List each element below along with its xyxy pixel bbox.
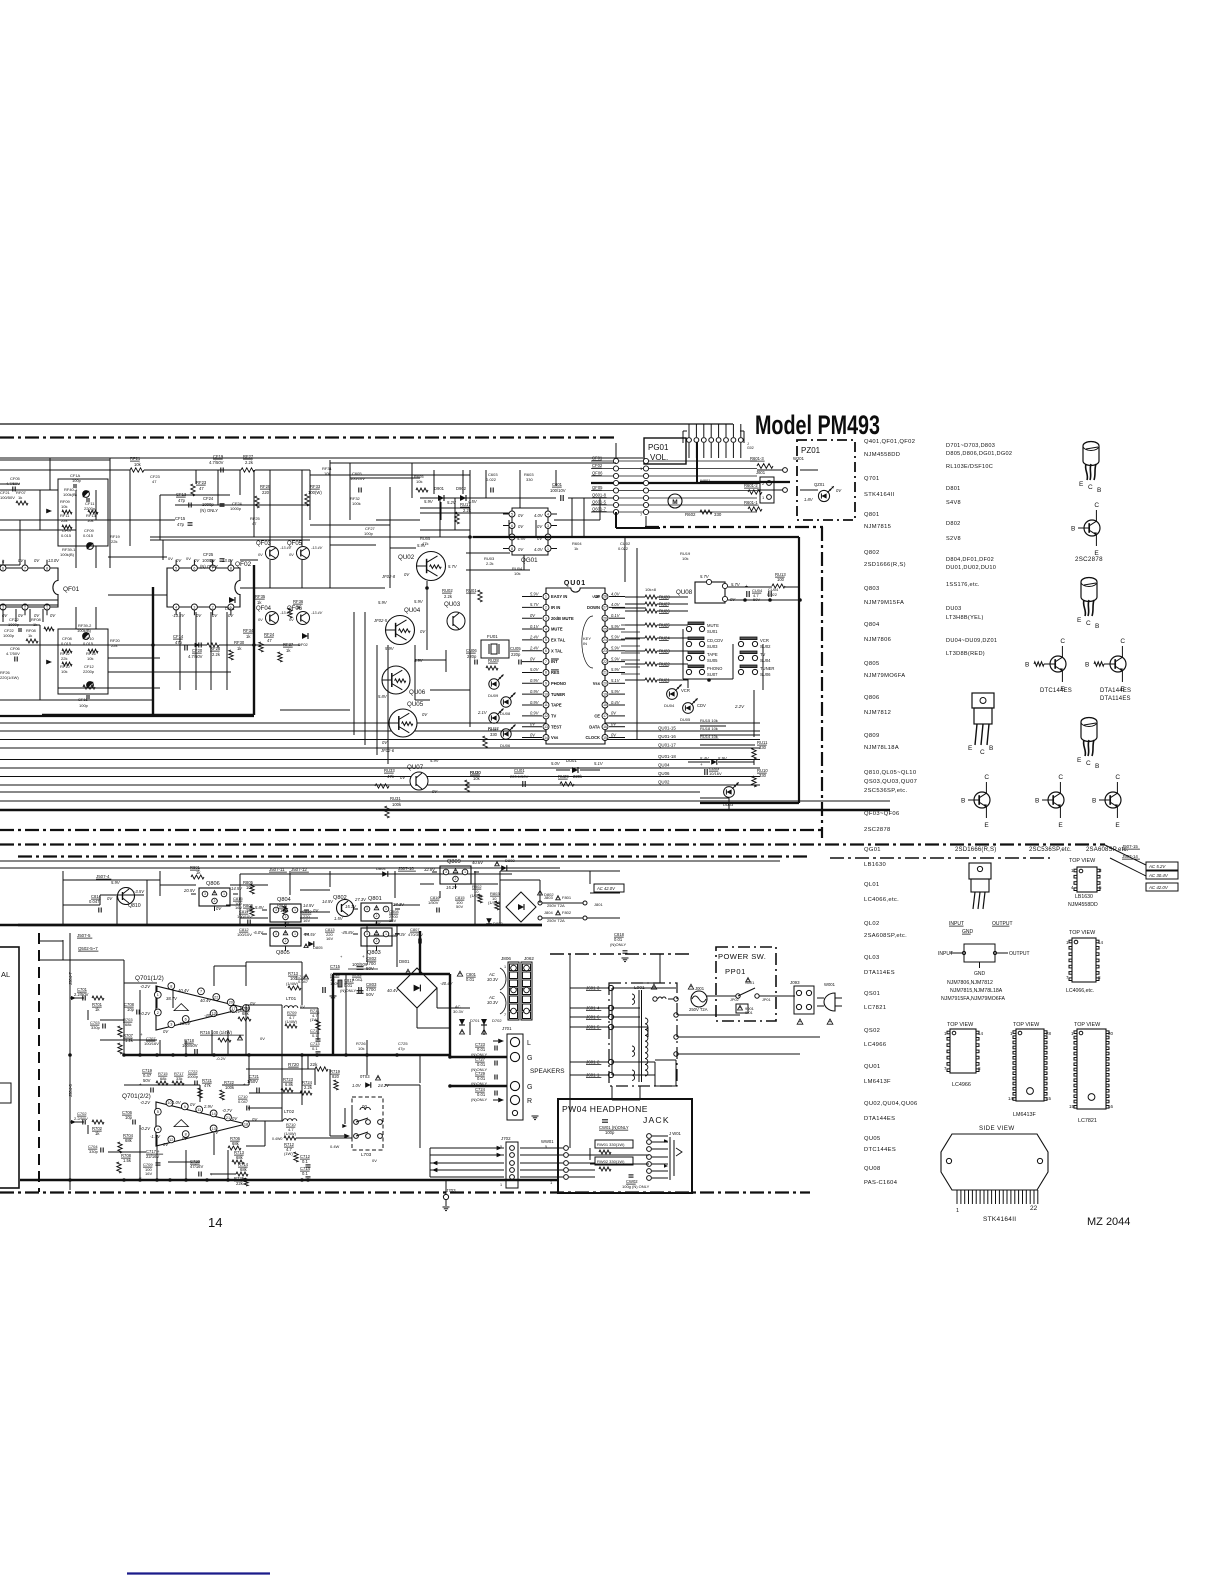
svg-text:100p: 100p [605, 1130, 615, 1135]
svg-text:5.7V: 5.7V [731, 582, 741, 587]
svg-text:QU01: QU01 [864, 1064, 881, 1070]
svg-text:SU07: SU07 [707, 672, 718, 677]
svg-text:Q804: Q804 [864, 622, 880, 628]
svg-text:38.7V: 38.7V [166, 996, 178, 1001]
svg-text:PP01: PP01 [725, 967, 746, 976]
svg-text:D701: D701 [470, 1018, 480, 1023]
svg-text:0V: 0V [186, 556, 191, 561]
svg-text:8: 8 [511, 547, 513, 551]
svg-text:RU28: RU28 [488, 658, 499, 663]
svg-text:RF23: RF23 [196, 480, 207, 485]
svg-text:QU04: QU04 [404, 607, 421, 614]
svg-text:S4V8: S4V8 [946, 500, 961, 506]
svg-text:1000p: 1000p [230, 506, 242, 511]
svg-text:B: B [1092, 798, 1096, 805]
svg-text:100k: 100k [352, 501, 361, 506]
svg-text:220k: 220k [573, 774, 583, 779]
svg-text:B: B [1085, 662, 1089, 669]
svg-text:IN: IN [583, 641, 587, 646]
svg-text:(N)ONLY: (N)ONLY [471, 1097, 487, 1102]
svg-text:SU01: SU01 [707, 629, 718, 634]
svg-text:1: 1 [500, 1183, 502, 1187]
svg-text:5.9V: 5.9V [611, 656, 621, 661]
svg-text:J093: J093 [790, 980, 800, 985]
svg-text:40.4V: 40.4V [200, 998, 212, 1003]
svg-text:RF30: RF30 [234, 640, 245, 645]
svg-text:0.1: 0.1 [302, 1171, 308, 1176]
svg-text:2SC2878: 2SC2878 [1075, 556, 1103, 563]
svg-text:J702: J702 [501, 1136, 511, 1141]
svg-text:E: E [1058, 822, 1063, 829]
svg-text:-6.0V: -6.0V [253, 930, 264, 935]
svg-text:1: 1 [385, 932, 387, 936]
svg-text:RU18 10k: RU18 10k [700, 726, 718, 731]
svg-text:RU01: RU01 [466, 588, 477, 593]
svg-text:5: 5 [157, 1110, 159, 1114]
svg-text:SPEAKERS: SPEAKERS [530, 1068, 564, 1075]
svg-text:TOP VIEW: TOP VIEW [1069, 858, 1096, 864]
svg-text:1.5k: 1.5k [123, 1158, 132, 1163]
svg-text:1: 1 [956, 1208, 959, 1214]
svg-text:2: 2 [376, 914, 378, 918]
svg-text:2: 2 [285, 915, 287, 919]
svg-text:11: 11 [197, 1108, 201, 1112]
svg-text:3: 3 [366, 907, 368, 911]
svg-text:AC 42.0V: AC 42.0V [596, 886, 616, 891]
svg-text:JP02: JP02 [730, 998, 739, 1002]
svg-text:RF34: RF34 [243, 628, 254, 633]
svg-text:SU05: SU05 [707, 658, 718, 663]
svg-text:R: R [527, 1098, 532, 1105]
svg-text:JF02-5: JF02-5 [373, 618, 388, 623]
svg-text:8: 8 [46, 566, 48, 570]
svg-text:1000p: 1000p [187, 1074, 199, 1079]
svg-text:13: 13 [544, 725, 548, 729]
svg-text:QL02: QL02 [864, 921, 880, 927]
svg-text:QU03: QU03 [444, 601, 461, 608]
svg-text:DTC144ES: DTC144ES [1040, 688, 1072, 694]
svg-text:10p: 10p [125, 1115, 133, 1120]
svg-text:Q806: Q806 [206, 881, 220, 887]
svg-text:(N) ONLY: (N) ONLY [200, 508, 218, 513]
svg-text:D804: D804 [376, 866, 386, 871]
svg-text:100: 100 [777, 577, 785, 582]
svg-text:Q701(2/2): Q701(2/2) [122, 1093, 151, 1100]
svg-text:RU29: RU29 [558, 774, 569, 779]
svg-text:RW01 330(1W): RW01 330(1W) [597, 1142, 625, 1147]
svg-text:0.9V: 0.9V [530, 700, 540, 705]
svg-text:Q806: Q806 [864, 695, 880, 701]
svg-text:220.1/50V: 220.1/50V [510, 774, 529, 779]
svg-text:QU01: QU01 [564, 580, 586, 587]
svg-text:12: 12 [544, 714, 548, 718]
svg-text:NJM7806,NJM7812: NJM7806,NJM7812 [947, 980, 993, 986]
svg-text:STK4164II: STK4164II [983, 1216, 1016, 1223]
svg-text:DOWN: DOWN [587, 605, 600, 610]
svg-text:50V: 50V [143, 1078, 151, 1083]
svg-text:LC4066,etc.: LC4066,etc. [864, 897, 899, 903]
svg-text:INT: INT [551, 659, 558, 664]
svg-text:DU01,DU02,DU10: DU01,DU02,DU10 [946, 565, 996, 571]
svg-text:D802: D802 [946, 521, 961, 527]
svg-text:J806: J806 [501, 956, 511, 961]
svg-text:RF33: RF33 [310, 484, 321, 489]
svg-text:-40.4V: -40.4V [440, 981, 454, 986]
svg-text:JP01: JP01 [762, 998, 771, 1002]
svg-text:+: + [360, 978, 363, 983]
svg-text:C: C [1086, 760, 1091, 767]
svg-text:VOL: VOL [592, 594, 601, 599]
svg-text:B: B [961, 798, 965, 805]
svg-text:Q810: Q810 [128, 903, 141, 909]
svg-text:15.1V: 15.1V [345, 904, 357, 909]
svg-text:CF15: CF15 [175, 516, 186, 521]
svg-text:10k: 10k [61, 504, 67, 509]
svg-text:6: 6 [193, 566, 195, 570]
svg-text:0V: 0V [258, 553, 263, 557]
svg-text:3: 3 [193, 605, 195, 609]
svg-text:Q801: Q801 [864, 512, 880, 518]
svg-text:QU01-15: QU01-15 [658, 726, 676, 731]
svg-text:QL01: QL01 [864, 882, 880, 888]
svg-text:20: 20 [229, 1001, 233, 1005]
svg-text:220: 220 [262, 490, 270, 495]
svg-text:5: 5 [175, 566, 177, 570]
svg-text:17: 17 [603, 714, 607, 718]
svg-text:100p: 100p [79, 703, 89, 708]
svg-text:5.9V: 5.9V [385, 646, 395, 651]
svg-text:NJM7915FA,NJM79MO6FA: NJM7915FA,NJM79MO6FA [941, 996, 1006, 1002]
svg-text:DTC144ES: DTC144ES [864, 1147, 896, 1153]
svg-text:0.9V: 0.9V [530, 711, 540, 716]
svg-text:B: B [1095, 623, 1099, 630]
svg-text:Q502-5~7: Q502-5~7 [78, 946, 98, 951]
svg-text:14: 14 [208, 1215, 222, 1230]
svg-text:14: 14 [544, 736, 548, 740]
svg-text:4: 4 [157, 1128, 159, 1132]
svg-text:1: 1 [46, 605, 48, 609]
svg-text:2: 2 [24, 605, 26, 609]
svg-text:Q809: Q809 [864, 733, 880, 739]
svg-text:SU03: SU03 [707, 644, 718, 649]
svg-text:0.022: 0.022 [618, 546, 629, 551]
svg-text:22: 22 [1030, 1205, 1038, 1212]
svg-text:J001: J001 [695, 986, 705, 991]
svg-text:RES: RES [551, 670, 560, 675]
svg-text:6.8k: 6.8k [285, 1082, 294, 1087]
svg-text:330: 330 [490, 732, 498, 737]
svg-text:5.7V: 5.7V [530, 602, 540, 607]
svg-text:CDV: CDV [697, 703, 706, 708]
svg-text:DTA144ES: DTA144ES [1100, 688, 1131, 694]
svg-text:LC7821: LC7821 [1078, 1118, 1097, 1124]
svg-text:Q805: Q805 [864, 661, 880, 667]
svg-text:0.1: 0.1 [312, 1046, 318, 1051]
svg-text:1: 1 [545, 595, 547, 599]
svg-text:2.2/50V: 2.2/50V [74, 992, 89, 997]
svg-text:14: 14 [1008, 1096, 1014, 1101]
svg-text:6: 6 [2, 566, 4, 570]
svg-text:22k: 22k [111, 539, 117, 544]
svg-text:F801: F801 [562, 895, 572, 900]
svg-text:W001: W001 [824, 982, 836, 987]
svg-text:15: 15 [603, 736, 607, 740]
svg-text:-45.8V: -45.8V [341, 930, 355, 935]
svg-text:LT02: LT02 [284, 1109, 295, 1114]
svg-text:47: 47 [152, 479, 157, 484]
svg-text:TAPE: TAPE [551, 703, 562, 708]
svg-text:CU05: CU05 [510, 646, 521, 651]
svg-text:10k×8: 10k×8 [645, 587, 657, 592]
svg-text:-0.2V: -0.2V [140, 984, 151, 989]
svg-text:+: + [700, 762, 703, 767]
svg-text:14: 14 [211, 1112, 215, 1116]
svg-text:J062: J062 [524, 956, 534, 961]
svg-text:CU01: CU01 [514, 768, 525, 773]
svg-text:B: B [1097, 487, 1101, 494]
svg-text:13.0V: 13.0V [48, 558, 60, 563]
svg-text:100(W): 100(W) [308, 490, 322, 495]
svg-text:WW01: WW01 [541, 1139, 554, 1144]
svg-text:SU06: SU06 [760, 672, 771, 677]
svg-text:2: 2 [157, 1011, 159, 1015]
svg-text:W201: W201 [793, 456, 805, 461]
svg-text:10k: 10k [358, 1046, 364, 1051]
svg-text:C: C [1088, 484, 1093, 491]
svg-text:30.3V: 30.3V [453, 1009, 464, 1014]
svg-text:QL03: QL03 [864, 955, 880, 961]
svg-text:5.0V: 5.0V [551, 761, 561, 766]
svg-text:1000p: 1000p [3, 633, 15, 638]
svg-text:J801: J801 [594, 902, 603, 907]
svg-text:5: 5 [545, 638, 547, 642]
svg-text:(1W): (1W) [284, 1151, 293, 1156]
svg-text:2: 2 [545, 606, 547, 610]
svg-text:250V T2A: 250V T2A [547, 903, 565, 908]
svg-text:100k: 100k [392, 802, 402, 807]
svg-text:7: 7 [545, 660, 547, 664]
svg-text:3: 3 [2, 605, 4, 609]
svg-text:1: 1 [504, 965, 506, 969]
svg-text:LC4066,etc.: LC4066,etc. [1066, 988, 1094, 994]
svg-text:35V: 35V [389, 918, 396, 923]
svg-text:32.8V: 32.8V [424, 867, 436, 872]
svg-text:100/50V: 100/50V [182, 1043, 198, 1048]
svg-text:J601: J601 [756, 470, 766, 475]
svg-text:LB1630: LB1630 [1075, 894, 1093, 900]
svg-text:C715: C715 [330, 964, 341, 969]
svg-text:NJM7815: NJM7815 [864, 524, 891, 530]
svg-text:40.4V: 40.4V [387, 988, 399, 993]
svg-text:5.9V: 5.9V [530, 591, 540, 596]
svg-text:25: 25 [603, 627, 607, 631]
svg-text:AC 30.4V: AC 30.4V [1148, 873, 1169, 878]
svg-text:4.0V: 4.0V [611, 591, 621, 596]
svg-text:-13.4V: -13.4V [311, 546, 323, 550]
svg-text:D801: D801 [399, 959, 410, 964]
svg-text:7: 7 [504, 1013, 506, 1017]
svg-text:C: C [984, 774, 989, 781]
svg-text:0.01: 0.01 [466, 977, 475, 982]
svg-text:7: 7 [200, 990, 202, 994]
svg-text:5.1V: 5.1V [611, 678, 621, 683]
svg-text:1/50V: 1/50V [428, 900, 439, 905]
svg-text:1.8V: 1.8V [804, 497, 814, 502]
svg-text:20: 20 [603, 682, 607, 686]
svg-text:QU02: QU02 [658, 780, 670, 785]
svg-text:RU02: RU02 [442, 588, 453, 593]
svg-text:NJM4558DD: NJM4558DD [864, 452, 900, 458]
svg-text:22: 22 [603, 660, 607, 664]
svg-text:D805: D805 [313, 945, 323, 950]
svg-text:QF05: QF05 [592, 485, 603, 490]
svg-text:15: 15 [1069, 1104, 1075, 1109]
svg-text:330p: 330p [91, 1025, 101, 1030]
svg-text:LT3H8B(YEL): LT3H8B(YEL) [946, 615, 984, 621]
svg-text:220p: 220p [467, 654, 477, 659]
svg-text:DU09: DU09 [488, 693, 499, 698]
svg-text:22k: 22k [61, 656, 67, 661]
svg-text:RF21: RF21 [130, 456, 141, 461]
svg-text:10/16V: 10/16V [709, 771, 722, 776]
svg-text:CF02: CF02 [592, 463, 603, 468]
svg-text:2.2V: 2.2V [734, 704, 745, 709]
svg-text:NJM78L18A: NJM78L18A [864, 745, 899, 751]
svg-text:CF25: CF25 [203, 552, 214, 557]
svg-text:2: 2 [285, 939, 287, 943]
svg-text:3: 3 [366, 932, 368, 936]
svg-text:TUNER: TUNER [551, 692, 565, 697]
svg-text:MUTE: MUTE [551, 627, 563, 632]
svg-text:330: 330 [714, 512, 722, 517]
svg-text:0.9V: 0.9V [530, 678, 540, 683]
svg-text:5.9V: 5.9V [378, 600, 388, 605]
svg-text:5.9V: 5.9V [718, 756, 728, 761]
svg-text:-1.7V: -1.7V [150, 1134, 161, 1139]
svg-text:PG01: PG01 [648, 443, 669, 452]
svg-text:6: 6 [511, 524, 513, 528]
svg-text:CF20: CF20 [192, 648, 203, 653]
svg-text:QF01: QF01 [63, 586, 80, 593]
svg-text:PHONO: PHONO [707, 666, 723, 671]
svg-text:QU01-17: QU01-17 [658, 743, 676, 748]
svg-text:0T03: 0T03 [360, 1074, 370, 1079]
svg-text:DU03: DU03 [946, 606, 962, 612]
svg-text:10: 10 [544, 692, 548, 696]
svg-text:RU33: RU33 [384, 768, 395, 773]
svg-text:2SA608SP,etc.: 2SA608SP,etc. [864, 933, 907, 939]
svg-text:2.2k: 2.2k [304, 1085, 313, 1090]
svg-text:47k: 47k [422, 541, 428, 546]
svg-text:10k: 10k [134, 462, 142, 467]
svg-text:QG01: QG01 [864, 847, 881, 853]
svg-text:47k: 47k [387, 774, 395, 779]
svg-text:QU07: QU07 [407, 764, 424, 771]
svg-text:MZ 2044: MZ 2044 [1087, 1216, 1130, 1228]
svg-text:Q801: Q801 [368, 896, 382, 902]
svg-text:SIDE VIEW: SIDE VIEW [979, 1125, 1015, 1132]
svg-text:OUTPUT: OUTPUT [1009, 951, 1030, 957]
svg-text:10k: 10k [473, 776, 481, 781]
svg-text:E: E [984, 822, 989, 829]
svg-text:QU02: QU02 [398, 554, 415, 561]
svg-text:7: 7 [24, 566, 26, 570]
svg-text:G02: G02 [747, 446, 754, 450]
svg-text:68k: 68k [125, 1138, 133, 1143]
svg-text:5.8V: 5.8V [378, 694, 388, 699]
svg-text:IR IN: IR IN [551, 605, 560, 610]
svg-text:100k: 100k [225, 1085, 235, 1090]
svg-text:QU04: QU04 [658, 763, 670, 768]
svg-text:POWER SW.: POWER SW. [718, 952, 766, 961]
svg-text:5.7V: 5.7V [448, 564, 458, 569]
svg-text:5.4V: 5.4V [700, 756, 710, 761]
svg-text:28: 28 [1046, 1031, 1052, 1036]
svg-text:27: 27 [603, 606, 607, 610]
svg-text:FU01: FU01 [487, 634, 498, 639]
svg-text:0.1: 0.1 [302, 1159, 308, 1164]
svg-text:5.9V: 5.9V [430, 758, 440, 763]
svg-text:2.2k: 2.2k [486, 561, 494, 566]
svg-text:RU30: RU30 [470, 770, 481, 775]
svg-text:0.047: 0.047 [89, 899, 100, 904]
svg-text:QS01: QS01 [864, 991, 880, 997]
svg-text:2SD1666(R,S): 2SD1666(R,S) [955, 847, 996, 853]
svg-text:47p: 47p [398, 1046, 405, 1051]
svg-text:220(1/4W): 220(1/4W) [0, 675, 19, 680]
svg-text:68k: 68k [125, 1022, 131, 1027]
svg-text:CF14: CF14 [173, 634, 184, 639]
svg-text:5.9V: 5.9V [611, 689, 621, 694]
svg-text:22/16V: 22/16V [146, 1154, 159, 1159]
svg-text:50V: 50V [456, 904, 463, 909]
svg-text:W801: W801 [700, 478, 711, 483]
svg-text:0V: 0V [258, 618, 263, 622]
svg-text:3: 3 [547, 524, 549, 528]
svg-text:2.4V: 2.4V [529, 646, 540, 651]
svg-text:S2V8: S2V8 [946, 536, 961, 542]
svg-text:QU01-18: QU01-18 [658, 754, 676, 759]
svg-text:-38.6V: -38.6V [178, 1021, 192, 1026]
svg-text:DU01: DU01 [566, 758, 577, 763]
svg-text:D801: D801 [946, 486, 961, 492]
svg-text:3: 3 [275, 908, 277, 912]
svg-text:LT3D8B(RED): LT3D8B(RED) [946, 651, 985, 657]
svg-text:Q804: Q804 [277, 897, 291, 903]
svg-text:220p: 220p [511, 652, 521, 657]
svg-text:EASY IN: EASY IN [551, 594, 567, 599]
svg-text:L703: L703 [361, 1152, 372, 1157]
svg-text:5.9V: 5.9V [424, 499, 434, 504]
svg-text:20dB MUTE: 20dB MUTE [551, 616, 574, 621]
svg-text:330: 330 [759, 773, 767, 778]
svg-text:3: 3 [170, 1023, 172, 1027]
svg-text:TOP VIEW: TOP VIEW [1069, 930, 1096, 936]
svg-text:VCR: VCR [681, 688, 690, 693]
svg-text:2200p: 2200p [84, 506, 96, 511]
svg-text:24: 24 [603, 638, 607, 642]
svg-text:QF06: QF06 [592, 471, 603, 476]
svg-text:G: G [527, 1084, 532, 1091]
svg-text:50V: 50V [366, 992, 374, 997]
svg-text:3: 3 [275, 932, 277, 936]
svg-text:1: 1 [464, 870, 466, 874]
svg-text:RF24: RF24 [264, 632, 275, 637]
svg-text:14: 14 [978, 1031, 984, 1036]
svg-text:(N)ONLY: (N)ONLY [340, 988, 356, 993]
svg-text:AL: AL [1, 970, 10, 979]
svg-text:2.2k: 2.2k [212, 652, 221, 657]
